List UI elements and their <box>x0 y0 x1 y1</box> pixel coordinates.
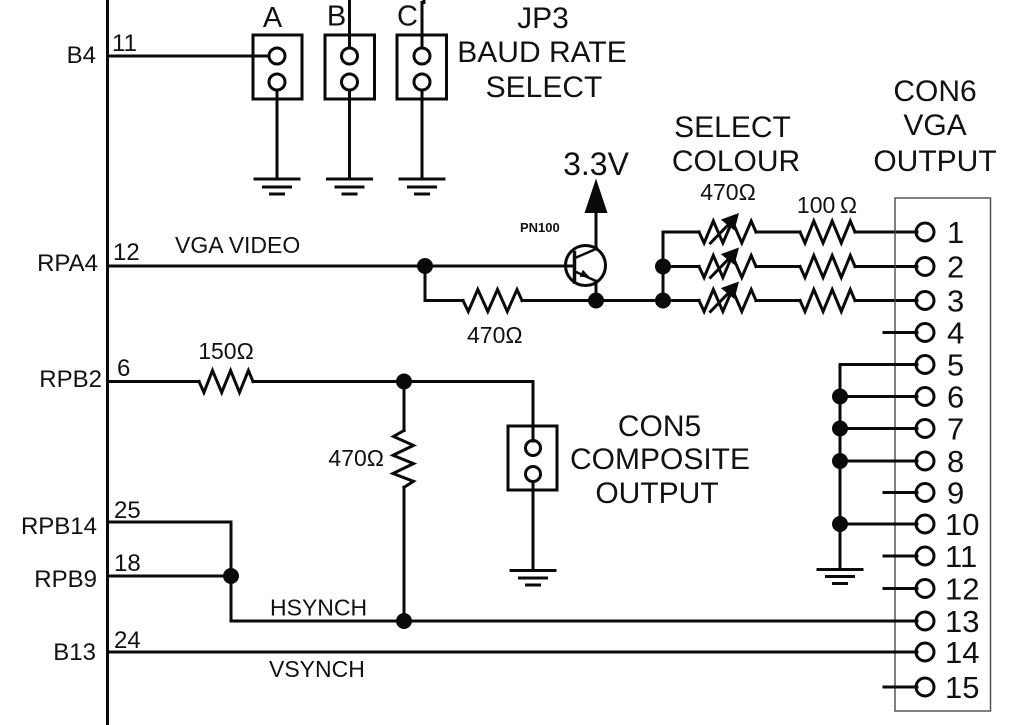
node RPB9 label <box>34 566 97 593</box>
wire: junction down to HSYNCH <box>230 576 233 621</box>
svg-text:470Ω: 470Ω <box>328 445 384 471</box>
ground (below jumper A) <box>255 179 299 194</box>
wire: CON5 to ground <box>532 482 535 571</box>
svg-text:VSYNCH: VSYNCH <box>269 656 365 682</box>
wire: RPB2 to resistor <box>108 380 200 383</box>
svg-text:15: 15 <box>945 670 979 705</box>
CON6 pin 2 <box>916 250 964 285</box>
connector CON6 body <box>895 198 991 711</box>
svg-text:6: 6 <box>947 380 964 415</box>
svg-text:12: 12 <box>945 572 979 607</box>
node RPB2 label <box>39 366 102 393</box>
svg-text:24: 24 <box>114 627 141 654</box>
wire: RPA4 to transistor base <box>108 265 575 268</box>
svg-text:RPB2: RPB2 <box>39 366 102 393</box>
CON6 pin 4 <box>884 316 964 351</box>
wire: resistor to HSYNCH <box>403 487 406 621</box>
wire: RPB14 down to junction <box>108 522 232 576</box>
wire: top into jumper C (with jog) <box>422 0 424 48</box>
CON6 pin 14 <box>916 635 979 670</box>
SELECT COLOUR title <box>672 111 800 178</box>
value 470ohm (variable) <box>700 179 756 205</box>
svg-text:COMPOSITE: COMPOSITE <box>570 443 750 476</box>
svg-text:CON6: CON6 <box>893 75 976 108</box>
net VGA VIDEO <box>175 232 300 258</box>
resistor 100ohm row3 <box>800 290 855 312</box>
svg-text:18: 18 <box>114 550 141 577</box>
svg-text:C: C <box>397 1 418 33</box>
wire: column joining rows 1-3 <box>663 232 699 301</box>
svg-text:8: 8 <box>947 444 964 479</box>
svg-text:4: 4 <box>947 316 964 351</box>
svg-text:SELECT: SELECT <box>486 71 603 104</box>
label PN100 <box>520 220 560 235</box>
svg-text:6: 6 <box>117 355 130 382</box>
svg-text:150Ω: 150Ω <box>198 338 254 364</box>
variable resistor VR2 row2 <box>699 248 756 278</box>
svg-text:25: 25 <box>114 497 141 524</box>
wire: jumper B to ground <box>348 90 351 178</box>
CON6 pin 12 <box>884 572 979 607</box>
resistor 150ohm <box>199 371 253 393</box>
svg-text:RPA4: RPA4 <box>37 250 98 277</box>
svg-text:HSYNCH: HSYNCH <box>270 595 367 621</box>
value 150ohm <box>198 338 254 364</box>
svg-text:11: 11 <box>112 30 137 57</box>
wire: HSYNCH to pin 13 <box>231 620 917 623</box>
svg-text:11: 11 <box>945 539 977 574</box>
svg-text:OUTPUT: OUTPUT <box>595 477 718 510</box>
ground (below CON5) <box>511 571 555 586</box>
svg-text:470Ω: 470Ω <box>700 179 756 205</box>
CON6 pin 8 <box>840 444 964 479</box>
svg-text:12: 12 <box>113 239 140 266</box>
ground (CON6 column) <box>818 570 862 584</box>
svg-text:B4: B4 <box>67 42 96 69</box>
wire: B4 to jumper A <box>108 55 270 58</box>
CON5 title <box>570 410 750 510</box>
svg-text:RPB9: RPB9 <box>34 566 97 593</box>
svg-text:470Ω: 470Ω <box>467 322 523 348</box>
resistor 100ohm row2 <box>800 256 855 278</box>
pin number 25 <box>114 497 141 524</box>
wire: RPB9 to junction <box>108 575 232 578</box>
node B label <box>327 1 346 33</box>
svg-text:JP3: JP3 <box>517 2 569 35</box>
connector CON5 <box>508 426 557 490</box>
svg-text:2: 2 <box>947 250 964 285</box>
svg-text:A: A <box>263 2 283 34</box>
ground (below jumper C) <box>400 179 444 194</box>
junction dot RPB9/RPB14 <box>223 568 239 584</box>
wire row1 to pin1 <box>756 231 800 234</box>
resistor 100ohm row1 <box>800 221 855 243</box>
svg-text:14: 14 <box>945 635 979 670</box>
junction dot pin10 <box>832 516 848 532</box>
pin number 6 <box>117 355 130 382</box>
wire: left vertical bus <box>106 0 109 725</box>
pin number 24 <box>114 627 141 654</box>
junction dot pin8 <box>832 453 848 469</box>
resistor 470ohm (vertical) <box>393 431 414 488</box>
JP3 title <box>457 2 626 104</box>
resistor 470ohm (base) <box>463 290 522 312</box>
net VSYNCH <box>269 656 365 682</box>
junction dot row3 <box>655 293 671 309</box>
jumper A <box>253 35 302 99</box>
svg-text:100 Ω: 100 Ω <box>797 192 857 218</box>
wire row3 <box>663 299 699 302</box>
CON6 title <box>873 75 996 178</box>
svg-text:3: 3 <box>947 284 964 319</box>
CON6 pin 15 <box>884 670 979 705</box>
node RPB14 label <box>21 513 97 540</box>
svg-text:10: 10 <box>945 507 979 542</box>
CON6 pin 3 <box>916 284 964 319</box>
CON6 pin 10 <box>840 507 979 542</box>
svg-text:VGA: VGA <box>903 109 966 142</box>
CON6 pin 13 <box>916 604 979 639</box>
junction dot RPB2/470 <box>396 374 412 390</box>
svg-text:COLOUR: COLOUR <box>672 145 800 178</box>
svg-text:B13: B13 <box>53 639 96 666</box>
pin number 11 <box>112 30 137 57</box>
svg-text:B: B <box>327 1 346 33</box>
junction dot row2 <box>655 259 671 275</box>
svg-text:OUTPUT: OUTPUT <box>873 145 996 178</box>
wire: arrow to collector <box>595 211 598 249</box>
wire: down from junction <box>425 266 463 301</box>
CON6 pin 5 <box>840 348 964 383</box>
value 100ohm <box>797 192 857 218</box>
wire: pin5 down ground column <box>839 365 842 570</box>
net HSYNCH <box>270 595 367 621</box>
wire: resistor to CON5 <box>253 382 533 442</box>
svg-text:7: 7 <box>947 412 964 447</box>
pin number 12 <box>113 239 140 266</box>
wire: jumper A to ground <box>276 90 279 178</box>
value 470ohm (vertical) <box>328 445 384 471</box>
ground (below jumper B) <box>328 179 372 194</box>
power arrow <box>585 179 608 214</box>
power 3.3V <box>563 146 629 182</box>
svg-text:3.3V: 3.3V <box>563 146 629 182</box>
svg-text:SELECT: SELECT <box>674 111 791 144</box>
wire: top into jumper B <box>348 0 351 48</box>
wire: resistor to emitter node <box>522 299 663 302</box>
value 470ohm <box>467 322 523 348</box>
junction dot <box>417 258 433 274</box>
CON6 pin 7 <box>840 412 964 447</box>
junction dot pin6 <box>832 389 848 405</box>
junction dot HSYNCH/470 <box>396 613 412 629</box>
svg-text:CON5: CON5 <box>618 410 701 443</box>
svg-text:BAUD RATE: BAUD RATE <box>457 36 626 69</box>
junction dot (emitter / row3) <box>588 293 604 309</box>
svg-text:RPB14: RPB14 <box>21 513 97 540</box>
wire: jumper C to ground <box>421 90 424 178</box>
node C label <box>397 1 418 33</box>
jumper C <box>397 35 447 99</box>
node A label <box>263 2 283 34</box>
wire row2 <box>663 265 699 268</box>
variable resistor VR1 row1 <box>699 213 756 243</box>
variable resistor VR3 row3 <box>699 282 756 312</box>
node B4 label <box>67 42 96 69</box>
jumper B <box>325 35 375 99</box>
transistor Q1 PN100 <box>566 246 606 301</box>
node RPA4 label <box>37 250 98 277</box>
CON6 pin 6 <box>840 380 964 415</box>
CON6 pin 1 <box>916 215 964 250</box>
svg-text:13: 13 <box>945 604 979 639</box>
svg-text:1: 1 <box>947 215 964 250</box>
svg-text:5: 5 <box>947 348 964 383</box>
svg-text:PN100: PN100 <box>520 220 560 235</box>
svg-text:VGA VIDEO: VGA VIDEO <box>175 232 300 258</box>
CON6 pin 11 <box>884 539 977 574</box>
node B13 label <box>53 639 96 666</box>
CON6 pin 9 <box>884 476 964 511</box>
wire: junction down to resistor <box>403 382 406 431</box>
pin number 18 <box>114 550 141 577</box>
wire: VSYNCH B13 to pin 14 <box>108 651 918 654</box>
svg-text:9: 9 <box>947 476 964 511</box>
junction dot pin7 <box>832 421 848 437</box>
